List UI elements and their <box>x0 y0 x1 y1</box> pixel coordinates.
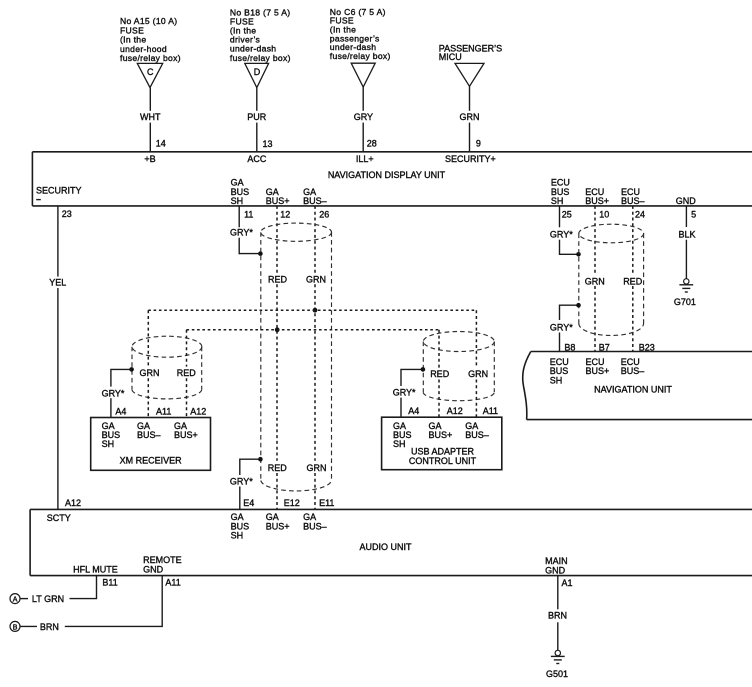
svg-text:SH: SH <box>393 439 406 449</box>
svg-text:11: 11 <box>244 209 253 219</box>
junction (XM GRY* to shield) <box>129 367 134 372</box>
wire GRY* (USB A4 to shield) <box>393 369 424 417</box>
svg-text:28: 28 <box>367 138 377 148</box>
wire GRY (fuse C6 to ILL+ pin 28) <box>354 87 373 152</box>
svg-text:fuse/relay box): fuse/relay box) <box>120 53 181 63</box>
svg-text:23: 23 <box>62 209 72 219</box>
wire GRY* (shield to nav unit B8) <box>550 305 579 351</box>
wire GRN (MICU to SECURITY+ pin 9) <box>460 86 480 152</box>
svg-text:24: 24 <box>635 209 645 219</box>
svg-text:A12: A12 <box>65 498 81 508</box>
svg-text:REMOTE: REMOTE <box>143 555 182 565</box>
junction (GRN at GA bus1) <box>313 308 318 313</box>
svg-text:G701: G701 <box>674 297 696 307</box>
svg-text:SH: SH <box>231 196 244 206</box>
svg-text:RED: RED <box>430 369 450 379</box>
junction (GRY* to central shield) <box>258 251 263 256</box>
svg-text:PUR: PUR <box>247 112 267 122</box>
wire GRN (USB A11 to bus1) <box>468 310 488 417</box>
svg-text:E12: E12 <box>284 498 300 508</box>
svg-text:GRN: GRN <box>307 463 327 473</box>
svg-text:BUS–: BUS– <box>137 430 161 440</box>
svg-text:NAVIGATION UNIT: NAVIGATION UNIT <box>594 385 672 395</box>
svg-text:BUS+: BUS+ <box>174 430 198 440</box>
svg-text:A4: A4 <box>408 406 419 416</box>
node GA BUS+ (display) <box>266 187 290 206</box>
svg-text:26: 26 <box>319 209 329 219</box>
junction (USB GRY* to shield) <box>421 367 426 372</box>
svg-text:GND: GND <box>676 196 697 206</box>
svg-text:BUS–: BUS– <box>465 430 489 440</box>
svg-text:CONTROL UNIT: CONTROL UNIT <box>409 456 477 466</box>
svg-text:A11: A11 <box>483 406 498 416</box>
node GA BUS+ (audio) <box>266 512 290 531</box>
svg-text:SCTY: SCTY <box>47 513 71 523</box>
svg-text:YEL: YEL <box>49 277 66 287</box>
svg-text:BUS–: BUS– <box>621 196 645 206</box>
svg-text:BUS–: BUS– <box>303 196 327 206</box>
wire BLK (pin 5 GND to G701) <box>678 206 695 279</box>
svg-text:ILL+: ILL+ <box>356 154 374 164</box>
junction (RED at GA bus2) <box>275 327 280 332</box>
wire GRY* (pin 11 GA BUS SH to shield) <box>230 206 261 254</box>
svg-text:RED: RED <box>177 368 197 378</box>
svg-text:GRY*: GRY* <box>550 230 573 240</box>
ground G701 <box>674 279 696 308</box>
svg-text:WHT: WHT <box>140 112 161 122</box>
svg-text:BLK: BLK <box>678 230 695 240</box>
svg-text:BUS+: BUS+ <box>266 521 290 531</box>
wire GRN (pin 10 ECU BUS+ to nav unit B7) <box>585 206 605 352</box>
svg-text:A11: A11 <box>165 578 180 588</box>
svg-text:BUS+: BUS+ <box>429 430 453 440</box>
wire WHT (fuse C to +B pin 14) <box>140 88 161 152</box>
svg-text:C: C <box>147 67 154 77</box>
fuse C6 annotation (No. C6 7.5A) <box>330 7 391 61</box>
svg-text:D: D <box>254 67 261 77</box>
svg-text:GRY: GRY <box>354 112 373 122</box>
wire BRN (connector B to A11) <box>40 576 162 632</box>
wire GRN (pin 26 GA BUS- down to audio E11) <box>306 206 327 510</box>
MICU connector symbol <box>455 63 484 86</box>
node ECU BUS+ (display) <box>585 187 609 206</box>
wire RED (pin 24 ECU BUS- to nav unit B23) <box>623 206 643 352</box>
fuse D annotation (No. B18 7.5A) <box>230 7 291 63</box>
XM receiver box <box>91 418 211 471</box>
junction (E4 GRY* to central shield) <box>258 457 263 462</box>
wire GRY* (audio E4 to central shield) <box>230 459 261 509</box>
node GA BUS SH (display) <box>231 178 250 206</box>
svg-text:AUDIO UNIT: AUDIO UNIT <box>359 542 412 552</box>
wire LT GRN (connector A to B11) <box>32 576 97 605</box>
wire YEL (SECURITY pin 23 to audio SCTY A12) <box>49 206 66 510</box>
svg-text:25: 25 <box>562 209 572 219</box>
svg-text:GRN: GRN <box>585 277 605 287</box>
svg-text:12: 12 <box>280 209 290 219</box>
svg-text:GRN: GRN <box>468 369 488 379</box>
node REMOTE GND (audio) <box>143 555 182 575</box>
node GA BUS SH (audio) <box>231 512 250 540</box>
svg-text:13: 13 <box>263 139 273 149</box>
wire GRY* (pin 25 ECU BUS SH to shield) <box>550 206 579 255</box>
svg-text:ACC: ACC <box>247 154 267 164</box>
node GA BUS- (audio) <box>303 512 327 531</box>
svg-text:BUS+: BUS+ <box>586 366 610 376</box>
svg-text:MICU: MICU <box>439 52 462 62</box>
navigation unit box <box>523 352 752 420</box>
node MAIN GND (audio) <box>545 556 568 575</box>
svg-text:+B: +B <box>144 154 155 164</box>
shielded cable (USB adapter) <box>423 332 494 401</box>
svg-text:SECURITY: SECURITY <box>36 185 82 195</box>
svg-text:XM RECEIVER: XM RECEIVER <box>120 456 183 466</box>
node ECU BUS SH (display) <box>551 178 570 206</box>
svg-text:RED: RED <box>268 275 288 285</box>
svg-text:fuse/relay box): fuse/relay box) <box>330 51 391 61</box>
wire GRY* (XM A4 to shield) <box>102 369 132 417</box>
svg-text:SECURITY+: SECURITY+ <box>445 154 496 164</box>
svg-text:BUS+: BUS+ <box>266 196 290 206</box>
svg-text:A4: A4 <box>115 406 126 416</box>
svg-text:A11: A11 <box>156 406 171 416</box>
fuse C annotation (No. A15 10A) <box>120 16 181 63</box>
svg-text:A12: A12 <box>190 406 206 416</box>
svg-text:BUS–: BUS– <box>621 366 645 376</box>
wire GA bus2 dotted (RED net) <box>187 329 440 331</box>
svg-text:LT GRN: LT GRN <box>32 594 64 604</box>
wire GA bus1 dotted (GRN net) <box>148 309 476 311</box>
audio unit box <box>30 509 752 575</box>
svg-text:HFL MUTE: HFL MUTE <box>73 565 118 575</box>
svg-text:GRY*: GRY* <box>550 323 573 333</box>
svg-text:GRY*: GRY* <box>230 477 253 487</box>
svg-text:GRY*: GRY* <box>102 388 125 398</box>
svg-text:A: A <box>13 597 18 604</box>
wire RED (USB A12 to bus2) <box>430 330 450 417</box>
svg-text:A1: A1 <box>562 578 573 588</box>
svg-text:14: 14 <box>156 138 166 148</box>
connector B <box>10 621 37 631</box>
svg-text:SH: SH <box>550 375 563 385</box>
svg-text:SH: SH <box>231 531 244 541</box>
wire GRN (XM A11 to bus1) <box>140 310 160 417</box>
svg-text:E11: E11 <box>319 498 334 508</box>
wire BRN (MAIN GND A1 to G501) <box>548 576 567 651</box>
svg-text:NAVIGATION DISPLAY UNIT: NAVIGATION DISPLAY UNIT <box>328 170 446 180</box>
passenger's MICU annotation <box>439 43 502 62</box>
junction (ECU GRY* upper) <box>576 252 581 257</box>
wire PUR (fuse D to ACC pin 13) <box>247 88 267 152</box>
svg-text:RED: RED <box>268 463 288 473</box>
node ECU BUS- (display) <box>621 187 645 206</box>
fuse C symbol <box>137 63 162 87</box>
svg-text:GRN: GRN <box>140 368 160 378</box>
svg-text:B11: B11 <box>102 578 117 588</box>
svg-text:GRN: GRN <box>306 275 326 285</box>
junction (ECU GRY* lower) <box>576 303 581 308</box>
svg-text:9: 9 <box>476 138 481 148</box>
connector A <box>10 594 28 604</box>
svg-text:BUS+: BUS+ <box>585 196 609 206</box>
ground G501 <box>546 650 568 679</box>
svg-text:5: 5 <box>691 209 696 219</box>
svg-text:RED: RED <box>623 277 643 287</box>
svg-text:10: 10 <box>599 209 609 219</box>
svg-text:fuse/relay box): fuse/relay box) <box>230 53 291 63</box>
wire RED (pin 12 GA BUS+ down to audio E12) <box>268 206 288 510</box>
svg-text:GRY*: GRY* <box>393 388 416 398</box>
svg-text:G501: G501 <box>546 669 568 679</box>
USB adapter control unit box <box>382 417 502 470</box>
svg-text:BUS–: BUS– <box>303 521 327 531</box>
node SECURITY- <box>36 185 82 199</box>
fuse D symbol <box>245 63 269 87</box>
svg-text:SH: SH <box>102 439 115 449</box>
svg-text:BRN: BRN <box>548 610 567 620</box>
svg-text:B: B <box>13 624 18 631</box>
svg-text:GRY*: GRY* <box>230 228 253 238</box>
shielded cable (ECU bus shield) <box>579 224 644 335</box>
svg-text:BRN: BRN <box>40 622 59 632</box>
svg-text:GND: GND <box>545 565 566 575</box>
svg-text:GND: GND <box>143 565 164 575</box>
svg-text:A12: A12 <box>447 406 463 416</box>
shielded cable (central GA bus shield) <box>261 223 332 491</box>
svg-text:SH: SH <box>551 196 564 206</box>
svg-text:E4: E4 <box>243 498 254 508</box>
node GA BUS- (display) <box>303 187 327 206</box>
shielded cable (XM receiver) <box>132 336 202 399</box>
svg-text:GRN: GRN <box>460 112 480 122</box>
wire RED (XM A12 to bus2) <box>177 330 197 418</box>
fuse C6 symbol <box>351 63 375 87</box>
navigation display unit box <box>32 152 752 206</box>
